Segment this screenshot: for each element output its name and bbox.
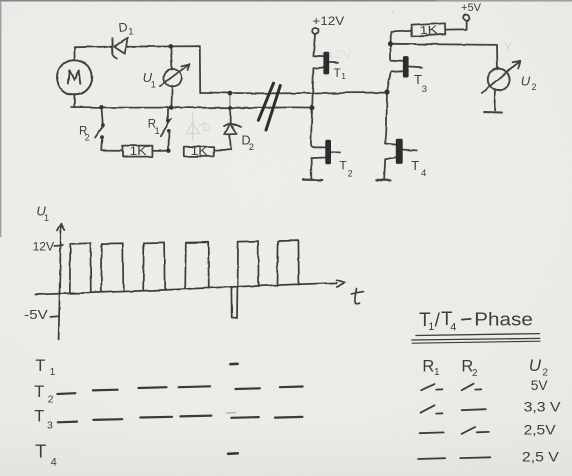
svg-text:1: 1 [44,213,49,223]
svg-text:2: 2 [472,368,478,379]
svg-text:T: T [34,383,44,401]
svg-text:4: 4 [450,321,456,333]
svg-text:1: 1 [428,321,434,333]
svg-text:-5V: -5V [24,308,48,322]
svg-text:1: 1 [155,126,160,136]
svg-text:3,3 V: 3,3 V [524,399,562,415]
svg-text:2,5 V: 2,5 V [522,448,560,464]
svg-text:+12V: +12V [318,47,352,61]
svg-text:U: U [521,74,531,89]
svg-text:4: 4 [51,457,57,469]
svg-text:2: 2 [348,168,353,178]
svg-text:1: 1 [341,71,346,81]
svg-text:2: 2 [249,142,254,153]
svg-text:3: 3 [422,84,427,95]
svg-text:1K: 1K [419,24,438,37]
svg-text:3: 3 [47,420,53,432]
svg-text:2: 2 [48,393,54,405]
svg-text:5V: 5V [531,377,548,393]
svg-text:T: T [34,408,44,426]
svg-text:12V: 12V [33,242,55,254]
svg-text:2: 2 [532,82,537,92]
svg-text:D: D [203,122,211,134]
svg-text:T: T [35,441,46,461]
svg-text:1: 1 [128,27,133,38]
svg-text:4: 4 [421,168,426,179]
svg-text:/: / [435,310,441,331]
svg-text:T: T [411,158,419,173]
svg-text:+12V: +12V [312,16,344,28]
svg-text:Y: Y [504,40,512,54]
svg-text:1: 1 [434,367,440,378]
svg-text:+5V: +5V [461,2,482,14]
svg-text:1K: 1K [191,144,208,158]
svg-text:T: T [339,159,347,173]
svg-text:T: T [35,357,45,375]
svg-text:1K: 1K [130,144,147,158]
svg-text:+: + [390,8,395,18]
svg-text:1: 1 [50,367,56,378]
svg-text:2,5V: 2,5V [524,422,556,437]
svg-text:T: T [334,68,341,80]
svg-text:U: U [529,356,542,375]
svg-text:R: R [422,357,434,375]
svg-text:Phase: Phase [474,310,533,330]
svg-text:D: D [118,20,128,35]
svg-text:1: 1 [151,80,156,90]
svg-text:2: 2 [85,133,90,143]
